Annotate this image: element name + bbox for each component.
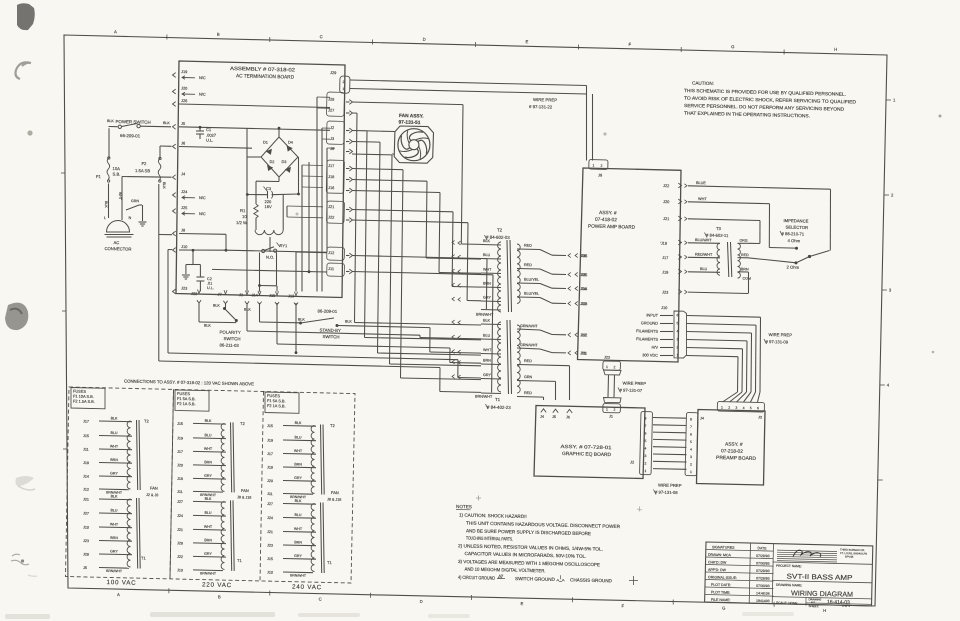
T2 primary lead BLU	[481, 258, 501, 261]
svg-text:GRY: GRY	[110, 471, 118, 475]
svg-text:# 86-210-71: # 86-210-71	[781, 231, 804, 237]
svg-text:R1: R1	[240, 208, 246, 213]
svg-text:FAN: FAN	[241, 488, 249, 493]
svg-text:T1: T1	[327, 560, 333, 565]
wire bus stand-by to T1 WHT	[352, 326, 430, 328]
svg-text:H: H	[834, 47, 837, 52]
svg-text:J20: J20	[177, 463, 183, 467]
AC board left pin J26	[173, 102, 176, 107]
svg-text:4: 4	[676, 329, 678, 333]
svg-text:PLOT DATE:: PLOT DATE:	[711, 583, 731, 587]
table transformer winding column 3 group 1	[311, 426, 314, 494]
svg-text:J15: J15	[177, 422, 183, 426]
svg-text:WHT: WHT	[204, 447, 213, 451]
wire stubs to fan assembly	[367, 130, 395, 133]
svg-text:220 VAC: 220 VAC	[202, 581, 232, 589]
transformer T2 secondary winding	[517, 244, 520, 303]
svg-text:L: L	[104, 216, 106, 220]
svg-text:J17: J17	[662, 255, 668, 260]
8-pin connector on preamp board left	[685, 413, 698, 476]
T2 primary lead BLK	[481, 244, 501, 247]
wire relay coil to C3 row	[282, 195, 284, 230]
svg-text:BRN/WHT: BRN/WHT	[290, 573, 306, 577]
fan assembly box octagon	[394, 126, 433, 163]
svg-text:3: 3	[676, 337, 678, 341]
svg-text:J18: J18	[328, 174, 334, 179]
svg-text:J11: J11	[177, 490, 183, 494]
svg-text:J15: J15	[267, 557, 273, 561]
svg-text:THAT EXPLAINED IN THE OPERATIN: THAT EXPLAINED IN THE OPERATING INSTRUCT…	[684, 111, 810, 119]
jumper J5 row internal wire	[179, 127, 330, 131]
AC termination board assembly box 07-318-02	[176, 61, 345, 298]
svg-text:BPV4B: BPV4B	[845, 555, 854, 559]
svg-text:DATE: DATE	[757, 546, 767, 550]
svg-text:WHT: WHT	[118, 192, 122, 200]
svg-text:J13: J13	[581, 301, 587, 306]
svg-text:B: B	[218, 594, 221, 599]
power switch symbol	[109, 126, 118, 128]
svg-text:J6: J6	[181, 141, 185, 146]
svg-text:J1: J1	[239, 292, 243, 297]
T2 secondary leads to power amp	[517, 248, 540, 251]
table transformer winding column 2 group 2	[221, 501, 224, 569]
impedance selector switch arm	[808, 255, 811, 258]
svg-text:J21: J21	[267, 530, 273, 534]
svg-text:J15: J15	[267, 424, 273, 428]
wire fuse F1 down to AC connector, BLK	[108, 184, 110, 219]
svg-text:# 84-602-11: # 84-602-11	[706, 233, 729, 239]
svg-text:T3: T3	[716, 226, 722, 231]
svg-text:E: E	[525, 39, 528, 44]
svg-text:J6: J6	[566, 415, 570, 419]
title block bottom row	[772, 597, 872, 599]
T1 primary lead BLK	[481, 323, 501, 326]
svg-text:J5: J5	[181, 121, 185, 126]
T1 primary lead BRN/WHT	[481, 392, 501, 395]
svg-text:CAPACITOR VALUES IN MICROFARAD: CAPACITOR VALUES IN MICROFARADS, 50V-10%…	[464, 551, 586, 559]
scan artifact: gray blob left middle	[5, 303, 28, 330]
svg-text:1941403: 1941403	[756, 599, 770, 603]
svg-text:POWER AMP BOARD: POWER AMP BOARD	[588, 224, 636, 231]
svg-text:BLUE: BLUE	[696, 181, 706, 185]
svg-text:BLU: BLU	[110, 508, 117, 512]
wire bus F2 to T1 BRN/WHT	[159, 361, 440, 368]
svg-text:D2: D2	[269, 160, 274, 164]
T1 primary lead WHT	[481, 353, 501, 356]
svg-text:J17: J17	[328, 163, 334, 168]
zone ticks right border	[886, 99, 891, 101]
wire GRN to chassis ground	[126, 205, 139, 210]
svg-text:GRY: GRY	[294, 476, 302, 480]
svg-text:T2: T2	[240, 421, 246, 426]
svg-text:J24: J24	[267, 516, 273, 520]
table transformer winding column 1 group 2	[127, 499, 130, 567]
wire bus J15 to T1 BRN	[276, 303, 278, 344]
svg-text:BLU/YEL: BLU/YEL	[524, 292, 539, 296]
transformer T3 primary winding	[717, 243, 720, 275]
wire prep ribbon J29 to J9 two parallel lines	[350, 80, 587, 86]
svg-text:10A: 10A	[112, 166, 120, 171]
svg-text:H/V: H/V	[651, 345, 658, 350]
relay coil RY1 winding bumps	[255, 218, 257, 230]
svg-text:GRY: GRY	[204, 552, 212, 556]
T1 secondary lead GRN to J5 arrow	[517, 380, 556, 383]
svg-text:T1: T1	[495, 397, 501, 402]
svg-text:N/C: N/C	[199, 195, 206, 200]
dashed divider 1	[170, 389, 174, 579]
svg-text:DRAWN: MCA: DRAWN: MCA	[708, 553, 732, 558]
svg-text:J27: J27	[267, 502, 273, 506]
svg-text:WHT: WHT	[110, 444, 119, 448]
svg-text:GRY: GRY	[483, 373, 492, 377]
svg-text:J8 & J18: J8 & J18	[327, 498, 341, 502]
fuse F2 symbol and wire to J6	[160, 145, 172, 147]
svg-text:1: 1	[606, 365, 608, 369]
svg-text:J19: J19	[177, 436, 183, 440]
table transformer winding column 3 group 2	[311, 504, 314, 572]
svg-text:07/29/93: 07/29/93	[756, 569, 770, 573]
svg-text:A: A	[117, 592, 120, 597]
svg-text:8: 8	[690, 418, 692, 422]
jumper J26 row internal wire	[179, 104, 330, 108]
preamp board assembly box 07-218-02	[697, 410, 766, 486]
svg-text:J22: J22	[177, 555, 183, 559]
svg-text:07-418-02: 07-418-02	[595, 217, 617, 224]
title block vertical dividers	[749, 543, 750, 603]
svg-text:BRN: BRN	[110, 536, 118, 540]
svg-text:BLU/WHT: BLU/WHT	[695, 238, 712, 242]
svg-text:J18: J18	[83, 461, 89, 465]
svg-text:86-211-03: 86-211-03	[219, 343, 239, 348]
svg-text:J7: J7	[217, 292, 221, 297]
zone ticks left border	[61, 172, 65, 174]
J3 6-pin connector on preamp board top	[717, 402, 764, 413]
svg-text:BLK: BLK	[244, 308, 251, 312]
svg-text:1: 1	[606, 408, 608, 412]
svg-text:BLU: BLU	[204, 433, 211, 437]
svg-text:F: F	[628, 42, 631, 47]
fan blades symbol	[398, 129, 430, 161]
svg-text:1: 1	[676, 353, 678, 357]
wire power switch down to fuse F1	[108, 128, 110, 158]
stand-by switch wire to bus	[337, 325, 352, 327]
chassis ground symbol	[139, 221, 147, 223]
svg-text:100 VAC: 100 VAC	[106, 579, 136, 587]
scan artifact: smudge lower left wisp	[16, 476, 35, 486]
svg-text:GRN: GRN	[131, 199, 139, 203]
svg-text:BRN/WHT: BRN/WHT	[200, 571, 216, 575]
svg-text:BLK: BLK	[483, 319, 491, 323]
T2 primary lead GRY	[481, 300, 501, 303]
svg-text:7: 7	[690, 425, 692, 429]
svg-text:J19: J19	[267, 439, 273, 443]
svg-text:# 97-131-09: # 97-131-09	[765, 339, 788, 345]
svg-text:J10: J10	[661, 305, 668, 310]
svg-text:# 97-131-07: # 97-131-07	[619, 388, 642, 394]
capacitor C2 subcircuit with ground	[192, 250, 194, 264]
wire WHT down to 4 ohm terminal	[768, 204, 770, 248]
wire J6 to T1 BRN	[352, 153, 392, 156]
svg-text:GRN/WHT: GRN/WHT	[520, 324, 538, 328]
svg-text:AND 10 MEGOHM DIGITAL VOLTMETE: AND 10 MEGOHM DIGITAL VOLTMETER.	[464, 567, 545, 574]
svg-text:BLU: BLU	[483, 334, 491, 338]
svg-text:J15: J15	[581, 272, 587, 277]
svg-text:J11: J11	[581, 350, 587, 355]
transformer T3 secondary winding	[738, 243, 741, 278]
T3 secondary lead BRN	[738, 271, 749, 273]
svg-text:2: 2	[690, 463, 692, 467]
svg-text:2: 2	[891, 193, 894, 198]
transformer T2 core lines	[507, 240, 509, 312]
svg-text:BLK: BLK	[204, 324, 211, 328]
wire J27 to T1 BLK	[352, 112, 357, 114]
svg-text:2: 2	[676, 345, 678, 349]
scan artifact: specks right side	[939, 115, 942, 118]
svg-text:J5: J5	[552, 415, 556, 419]
wire J11 feed row	[212, 269, 327, 272]
svg-text:3: 3	[735, 406, 737, 410]
svg-text:2: 2	[644, 462, 646, 466]
AC board left pin J23	[173, 289, 176, 294]
circuit ground symbol in note 4	[497, 575, 505, 579]
svg-text:C1: C1	[206, 127, 212, 132]
AC board left pin J19	[173, 73, 176, 78]
svg-text:GRAPHIC EQ BOARD: GRAPHIC EQ BOARD	[562, 451, 612, 458]
svg-text:SWITCH GROUND: SWITCH GROUND	[515, 576, 556, 582]
svg-text:C: C	[320, 34, 323, 39]
svg-text:FILAMENTS: FILAMENTS	[636, 336, 658, 342]
svg-text:6: 6	[676, 313, 678, 317]
svg-text:FILE NAME:: FILE NAME:	[711, 598, 731, 602]
svg-text:2: 2	[728, 406, 730, 410]
logo script	[793, 550, 821, 557]
T1 secondary lead GRN/WHT to J12	[517, 329, 540, 330]
svg-text:J21: J21	[177, 528, 183, 532]
svg-text:GRY: GRY	[483, 296, 492, 300]
svg-text:J10: J10	[177, 568, 183, 572]
wire bus J13 to T1 GRY	[295, 303, 297, 353]
svg-text:8: 8	[644, 417, 646, 421]
ribbon wires between EQ and preamp 8-pin connectors	[653, 417, 687, 420]
svg-text:1.5A SB: 1.5A SB	[135, 168, 150, 173]
svg-text:1: 1	[893, 98, 896, 103]
wire BLUE down right side to impedance selector	[829, 189, 831, 250]
svg-text:J12: J12	[581, 332, 587, 337]
svg-text:J13: J13	[288, 293, 294, 298]
svg-text:1 of 1: 1 of 1	[842, 604, 850, 608]
scan artifact: bottom edge streaks	[5, 614, 50, 619]
svg-text:J21: J21	[83, 498, 89, 502]
svg-text:1: 1	[721, 406, 723, 410]
svg-text:WHT: WHT	[294, 449, 303, 453]
vertical wire to J11 row	[308, 162, 310, 272]
svg-text:POLARITY: POLARITY	[219, 330, 240, 335]
wire polarity switch bottom	[199, 321, 236, 324]
svg-text:GRY: GRY	[204, 474, 212, 478]
svg-text:F1: F1	[96, 174, 102, 179]
svg-text:66-209-01: 66-209-01	[120, 133, 141, 138]
svg-text:J24: J24	[181, 189, 188, 194]
svg-text:6: 6	[757, 406, 759, 410]
svg-text:J29: J29	[330, 70, 336, 75]
svg-text:J20: J20	[181, 86, 188, 91]
T2 primary lead BRN	[481, 286, 501, 289]
svg-text:300 VDC: 300 VDC	[642, 352, 658, 357]
fuse F1 symbol	[107, 158, 110, 181]
svg-text:4: 4	[644, 447, 646, 451]
svg-text:5: 5	[750, 406, 752, 410]
wire J6 row down left of bridge	[246, 147, 248, 195]
jumper J6 row internal wire	[179, 147, 252, 149]
svg-text:J18: J18	[177, 477, 183, 481]
svg-text:ASSY. #: ASSY. #	[599, 210, 617, 216]
AC board left pin J10	[173, 248, 176, 253]
svg-text:RY1: RY1	[279, 243, 288, 248]
svg-text:J23: J23	[83, 539, 89, 543]
svg-text:J16: J16	[581, 253, 587, 258]
T1 secondary lead GRN/WHT to J11	[517, 348, 540, 349]
svg-text:1: 1	[690, 470, 692, 474]
svg-text:J2: J2	[630, 460, 634, 465]
T1 secondary lead RED to J4 arrow	[517, 396, 544, 399]
svg-text:RED: RED	[524, 391, 532, 395]
ribbon cable J23 to J1	[604, 370, 622, 375]
svg-text:BRN: BRN	[483, 282, 491, 286]
svg-text:BLU: BLU	[204, 511, 211, 515]
wire J23 down to polarity switch	[198, 303, 200, 322]
svg-text:J15: J15	[83, 434, 89, 438]
T1 inline connector chevrons	[452, 320, 455, 324]
wire J21 to T2 BRN	[352, 210, 453, 212]
T3 secondary lead ORG	[738, 242, 750, 244]
svg-text:GRN: GRN	[524, 375, 533, 379]
svg-text:.01: .01	[207, 282, 212, 286]
relay contact wires down to J15	[259, 253, 261, 286]
svg-text:J22: J22	[663, 183, 669, 188]
svg-text:U.L.: U.L.	[207, 286, 214, 290]
svg-text:BLU/YEL: BLU/YEL	[524, 278, 539, 282]
svg-text:WHT: WHT	[483, 268, 492, 272]
wire J12 feed row from junction	[226, 250, 327, 252]
transformer T1 core lines	[507, 320, 509, 394]
svg-text:ASSEMBLY # 07-318-02: ASSEMBLY # 07-318-02	[230, 66, 295, 74]
svg-text:T2: T2	[144, 419, 150, 424]
svg-text:BRN: BRN	[110, 458, 118, 462]
wire bus J1 to T1 BLU	[246, 303, 248, 331]
svg-text:6: 6	[644, 432, 646, 436]
wire AC connector N lead up to J4, WHT	[121, 177, 123, 221]
svg-text:J28: J28	[177, 541, 183, 545]
svg-text:J12: J12	[83, 488, 89, 492]
svg-text:J11: J11	[267, 492, 273, 496]
svg-text:1: 1	[342, 87, 344, 91]
svg-text:BRN/WHT: BRN/WHT	[106, 569, 122, 573]
feeder wires inside AC board to right edge connectors	[317, 96, 330, 98]
wire J7 down to polarity switch	[225, 303, 227, 308]
svg-text:J2 & J8: J2 & J8	[146, 493, 158, 497]
svg-text:240 VAC: 240 VAC	[292, 584, 322, 592]
svg-text:D: D	[423, 37, 426, 42]
svg-text:GRY: GRY	[110, 549, 118, 553]
svg-text:3: 3	[644, 454, 646, 458]
svg-text:F2 1A S.B.: F2 1A S.B.	[177, 401, 196, 406]
svg-text:3: 3	[889, 288, 892, 293]
T2 inline connector chevrons	[452, 241, 455, 245]
wire J17 to T1 GRY	[352, 169, 403, 170]
svg-text:ORIGINAL ISSUE:: ORIGINAL ISSUE:	[708, 575, 737, 580]
svg-text:BLK: BLK	[205, 419, 212, 423]
svg-text:J16: J16	[328, 185, 334, 190]
svg-text:4: 4	[690, 448, 692, 452]
svg-text:4) CIRCUIT GROUND: 4) CIRCUIT GROUND	[458, 575, 496, 581]
svg-text:BLK: BLK	[111, 494, 118, 498]
svg-text:J25: J25	[181, 205, 187, 210]
svg-text:GROUND: GROUND	[641, 320, 659, 325]
J23 connector under power amp board	[603, 361, 621, 370]
svg-text:J21: J21	[663, 216, 669, 221]
zone tick marks and letters top border	[166, 35, 168, 40]
svg-text:J4: J4	[700, 417, 704, 421]
svg-text:J22: J22	[328, 215, 334, 220]
svg-text:D3: D3	[281, 160, 286, 164]
svg-text:BRN: BRN	[741, 267, 749, 271]
svg-text:J5: J5	[83, 566, 87, 570]
svg-text:INPUT: INPUT	[646, 312, 658, 317]
svg-text:D4: D4	[288, 141, 293, 145]
fuses box column 2	[175, 390, 209, 411]
svg-text:T1: T1	[141, 556, 147, 561]
svg-text:BLK: BLK	[163, 121, 170, 125]
wire J18 to T2 BLU	[352, 180, 427, 182]
svg-text:J11: J11	[328, 266, 334, 271]
wire J2 to T1 BLU	[352, 130, 367, 132]
diode D1 mark	[267, 149, 272, 154]
svg-text:J14: J14	[251, 292, 258, 297]
svg-text:J8 & J18: J8 & J18	[237, 495, 251, 499]
svg-text:7: 7	[644, 424, 646, 428]
svg-text:J4: J4	[181, 171, 186, 176]
svg-text:J26: J26	[181, 98, 187, 103]
vertical wire x327 to pill J6	[326, 148, 328, 252]
svg-text:BRN: BRN	[294, 462, 302, 466]
wire J11 to T1 BRN/WHT	[352, 272, 493, 275]
svg-text:STAND-BY: STAND-BY	[319, 328, 341, 333]
svg-text:WIRE PREP: WIRE PREP	[622, 381, 646, 387]
svg-text:5: 5	[676, 321, 678, 325]
AC connector shell	[107, 221, 130, 232]
wire J8 row exit left	[159, 234, 173, 236]
capacitor C1 on J5 row	[199, 127, 201, 131]
svg-text:4: 4	[887, 383, 890, 388]
svg-text:T1: T1	[237, 558, 243, 563]
svg-text:BRN: BRN	[204, 460, 212, 464]
svg-text:5: 5	[644, 439, 646, 443]
svg-text:F2 1.5A S.B.: F2 1.5A S.B.	[73, 399, 95, 405]
svg-text:G: G	[722, 606, 725, 611]
svg-text:J27: J27	[177, 500, 183, 504]
EQ board top pins J4 J5 J6	[541, 409, 546, 413]
svg-text:RED/WHT: RED/WHT	[695, 253, 713, 257]
polarity switch symbol	[223, 307, 226, 310]
svg-text:T2: T2	[330, 423, 336, 428]
svg-text:N/C: N/C	[199, 75, 206, 80]
svg-text:DRAWING NAME:: DRAWING NAME:	[776, 583, 802, 588]
title block drawing name row	[772, 581, 872, 583]
svg-text:PLOT TIME:: PLOT TIME:	[711, 590, 730, 594]
wire J22 to T2 GRY	[352, 220, 468, 223]
T1 primary lead GRY	[481, 378, 501, 381]
scan artifact: dark blotch top-left corner	[17, 3, 35, 30]
